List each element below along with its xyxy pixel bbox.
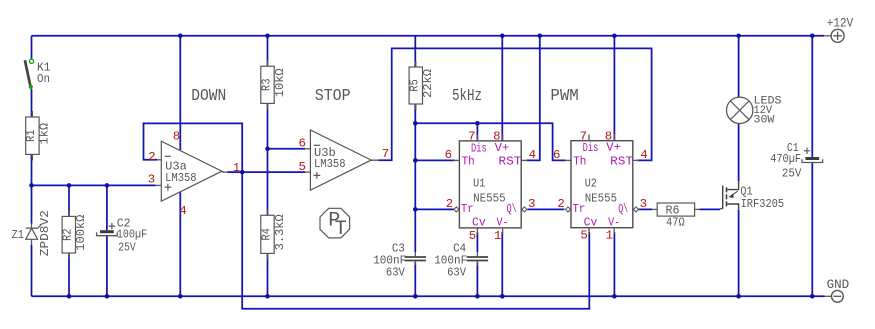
svg-text:Th: Th bbox=[573, 154, 586, 168]
node A wire (Z1/R2/C2/op-amp +) bbox=[32, 184, 156, 186]
svg-text:U1: U1 bbox=[473, 177, 485, 191]
svg-text:U2: U2 bbox=[585, 176, 597, 190]
svg-text:3: 3 bbox=[148, 173, 155, 187]
svg-text:PWM: PWM bbox=[550, 87, 578, 105]
wire U3a pin8 to +12V rail bbox=[179, 36, 181, 150]
svg-text:ZPD8V2: ZPD8V2 bbox=[38, 210, 52, 256]
svg-text:1kΩ: 1kΩ bbox=[38, 122, 52, 144]
svg-text:8: 8 bbox=[605, 130, 612, 144]
svg-text:470µF: 470µF bbox=[770, 152, 801, 166]
resistor R6 47ohm bbox=[652, 208, 657, 210]
wire U1 Cv to C4 bbox=[476, 232, 478, 252]
wire +12V top rail bbox=[32, 35, 825, 37]
capacitor C3 100nF bbox=[414, 252, 416, 256]
wire R6 to Q1 gate bbox=[700, 208, 721, 210]
svg-text:Tr: Tr bbox=[573, 202, 586, 216]
U3b minus input mark bbox=[314, 144, 320, 146]
svg-text:3: 3 bbox=[528, 197, 535, 211]
supply +12V bbox=[824, 35, 831, 37]
op-amp U3a triangle bbox=[161, 141, 222, 201]
wire C3 bottom bbox=[414, 262, 416, 296]
junction rail/lamp bbox=[736, 34, 741, 39]
svg-text:5: 5 bbox=[299, 160, 306, 174]
junction rail/U2 V+ bbox=[612, 34, 617, 39]
svg-text:5kHz: 5kHz bbox=[452, 87, 482, 105]
svg-text:R4: R4 bbox=[259, 228, 273, 241]
U3b plus input mark bbox=[314, 172, 321, 179]
timer U1 NE555 bbox=[476, 135, 478, 141]
U3b pin5 stub bbox=[305, 171, 310, 173]
svg-text:LM358: LM358 bbox=[165, 171, 197, 185]
junction gnd/C4 bbox=[475, 294, 480, 299]
transistor Q1 IRF3205 bbox=[720, 185, 723, 208]
wire R1 to node A bbox=[31, 154, 33, 185]
ground GND bbox=[825, 295, 832, 297]
wire U3a out to U3b pin5 bbox=[227, 171, 305, 173]
wire rail to lamp bbox=[738, 36, 740, 97]
lamp LEDS bbox=[727, 97, 753, 123]
junction gnd/U1 V- bbox=[500, 294, 505, 299]
capacitor C1 electrolytic bbox=[805, 157, 819, 160]
logo PT octagon bbox=[320, 208, 350, 238]
wire R5 top to rail bbox=[414, 36, 416, 67]
junction gnd/C3 bbox=[413, 294, 418, 299]
U3a plus input mark bbox=[165, 184, 172, 191]
svg-text:R3: R3 bbox=[259, 79, 273, 92]
svg-text:3.3kΩ: 3.3kΩ bbox=[273, 214, 287, 251]
svg-text:25V: 25V bbox=[782, 166, 802, 180]
svg-text:63V: 63V bbox=[447, 266, 466, 280]
svg-text:NE555: NE555 bbox=[473, 192, 506, 206]
wire U1 Dis drop bbox=[476, 123, 478, 141]
U3a pin2 stub bbox=[157, 159, 161, 161]
wire osc node to U1 Th bbox=[415, 159, 455, 161]
wire R4 bottom to rail bbox=[267, 253, 269, 296]
junction gnd/R4 bbox=[265, 294, 270, 299]
wire U2 V+ to rail bbox=[613, 36, 615, 141]
wire lamp to Q1 drain bbox=[738, 123, 740, 181]
wire U1 Q to U2 Tr bbox=[528, 208, 565, 210]
svg-text:RST: RST bbox=[499, 154, 522, 168]
svg-text:7: 7 bbox=[580, 130, 587, 144]
svg-text:1: 1 bbox=[606, 229, 613, 243]
polarity + C2 bbox=[109, 223, 115, 229]
svg-text:7: 7 bbox=[468, 130, 475, 144]
svg-text:3: 3 bbox=[640, 197, 647, 211]
svg-text:6: 6 bbox=[299, 137, 306, 151]
wire node A to Z1 bbox=[31, 185, 33, 223]
svg-text:R5: R5 bbox=[408, 79, 422, 92]
svg-text:30W: 30W bbox=[754, 115, 775, 127]
wire U1 V- to rail bbox=[501, 232, 503, 296]
svg-text:V-: V- bbox=[497, 216, 509, 230]
wire U1 V+ to rail bbox=[501, 36, 503, 141]
junction rail/C1 bbox=[810, 34, 815, 39]
resistor R5 22k bbox=[415, 61, 417, 67]
junction node A/Z1 bbox=[29, 183, 34, 188]
U3b pin6 stub bbox=[305, 148, 310, 150]
U3a output stub bbox=[222, 171, 228, 173]
junction R3-R4/U3b pin6 bbox=[265, 147, 270, 152]
wire rail to C1 bbox=[811, 36, 813, 157]
svg-text:4: 4 bbox=[529, 148, 536, 162]
wire osc node to U1 Dis bbox=[415, 122, 477, 124]
svg-text:4: 4 bbox=[179, 204, 186, 218]
U3a minus input mark bbox=[165, 155, 171, 157]
resistor R1 1k bbox=[31, 111, 33, 117]
wire C2 top bbox=[106, 185, 108, 230]
wire R2 top bbox=[68, 185, 70, 216]
capacitor C4 100nF bbox=[476, 252, 478, 256]
wire U2 Q to R6 bbox=[639, 208, 652, 210]
junction rail/U1 RST bbox=[538, 34, 543, 39]
svg-text:+12V: +12V bbox=[827, 16, 854, 31]
junction gnd/R2 bbox=[67, 294, 72, 299]
junction U3a output bbox=[240, 170, 245, 175]
svg-text:On: On bbox=[37, 72, 50, 86]
junction node A/C2 bbox=[105, 183, 110, 188]
junction osc/Tr line bbox=[413, 207, 418, 212]
svg-text:NE555: NE555 bbox=[585, 191, 618, 205]
junction gnd/C2 bbox=[105, 294, 110, 299]
svg-text:4: 4 bbox=[640, 148, 647, 162]
timer U2 NE555 bbox=[588, 135, 590, 141]
wire U3a pin4 to ground rail bbox=[179, 192, 181, 296]
svg-text:LM358: LM358 bbox=[314, 157, 346, 171]
switch K1 bbox=[29, 59, 33, 63]
wire R3 bottom to R4 top bbox=[267, 103, 269, 215]
op-amp U3b triangle bbox=[310, 130, 371, 190]
svg-text:Th: Th bbox=[462, 154, 475, 168]
svg-text:Q\: Q\ bbox=[507, 202, 517, 216]
wire U1 RST to rail bbox=[526, 36, 540, 161]
svg-text:25V: 25V bbox=[118, 240, 136, 254]
svg-text:63V: 63V bbox=[386, 266, 405, 280]
svg-text:IRF3205: IRF3205 bbox=[741, 197, 785, 211]
junction Dis line/U1 pin7 bbox=[475, 121, 480, 126]
svg-text:100kΩ: 100kΩ bbox=[74, 214, 88, 251]
svg-text:Tr: Tr bbox=[461, 202, 474, 216]
junction gnd/U2 V- bbox=[612, 294, 617, 299]
svg-text:7: 7 bbox=[382, 147, 389, 161]
resistor R3 10k bbox=[267, 60, 269, 66]
svg-text:6: 6 bbox=[553, 148, 560, 162]
svg-text:R2: R2 bbox=[61, 228, 75, 241]
wire Dis node to U2 Th bbox=[477, 123, 566, 160]
zener Z1 bbox=[31, 224, 33, 228]
svg-text:Q\: Q\ bbox=[618, 202, 628, 216]
svg-text:R1: R1 bbox=[24, 129, 38, 142]
wire Z1 to bottom rail bbox=[31, 245, 33, 296]
wire osc node to U1 Tr bbox=[415, 208, 454, 210]
svg-text:2: 2 bbox=[557, 197, 564, 211]
svg-text:Z1: Z1 bbox=[12, 228, 24, 242]
wire R3/R4 node to U3b pin6 bbox=[268, 148, 306, 150]
wire C4 bottom bbox=[476, 262, 478, 296]
svg-text:5: 5 bbox=[469, 229, 476, 243]
junction osc/Dis line bbox=[413, 121, 418, 126]
svg-text:1: 1 bbox=[233, 161, 240, 175]
svg-text:GND: GND bbox=[827, 277, 850, 292]
junction gnd/U3a pin4 bbox=[178, 294, 183, 299]
svg-text:DOWN: DOWN bbox=[191, 87, 226, 105]
junction rail/U1 V+ bbox=[500, 34, 505, 39]
wire R5 bottom to C3 bbox=[414, 104, 416, 252]
svg-text:V-: V- bbox=[608, 215, 620, 229]
svg-text:STOP: STOP bbox=[315, 87, 351, 105]
polarity + C1 bbox=[804, 148, 810, 154]
wire U3a out to U2 Cv (control voltage) bbox=[242, 172, 589, 309]
svg-text:22kΩ: 22kΩ bbox=[421, 69, 435, 98]
svg-text:5: 5 bbox=[580, 229, 587, 243]
wire GND bottom rail bbox=[32, 295, 825, 297]
svg-text:47Ω: 47Ω bbox=[666, 216, 685, 230]
svg-text:Cv: Cv bbox=[584, 215, 598, 229]
resistor R2 100k bbox=[68, 210, 70, 216]
junction gnd/Q1 source bbox=[736, 294, 741, 299]
wire U2 V- to rail bbox=[613, 232, 615, 296]
svg-text:T: T bbox=[335, 218, 347, 241]
wire switch to R1 bbox=[31, 89, 33, 117]
junction osc/Th line bbox=[413, 158, 418, 163]
wire R2 bottom bbox=[68, 253, 70, 296]
svg-text:RST: RST bbox=[610, 154, 633, 168]
svg-text:6: 6 bbox=[445, 148, 452, 162]
wire C1 to rail bbox=[811, 162, 813, 296]
svg-text:2: 2 bbox=[148, 150, 155, 164]
capacitor C2 electrolytic bbox=[100, 230, 114, 233]
svg-text:Cv: Cv bbox=[472, 216, 486, 230]
svg-text:2: 2 bbox=[446, 197, 453, 211]
svg-text:8: 8 bbox=[173, 130, 180, 144]
wire U3b out to U2 RST bbox=[379, 48, 652, 160]
wire C2 bottom bbox=[106, 236, 108, 296]
junction gnd/C1 bbox=[810, 294, 815, 299]
wire left drop to switch bbox=[31, 36, 33, 59]
junction rail/U3a pin8 bbox=[178, 34, 183, 39]
junction rail/R3 bbox=[265, 34, 270, 39]
junction node A/R2 bbox=[67, 183, 72, 188]
wire U3a feedback loop pin2-out bbox=[144, 123, 243, 172]
svg-text:1: 1 bbox=[494, 229, 501, 243]
resistor R4 3.3k bbox=[267, 209, 269, 215]
svg-text:10kΩ: 10kΩ bbox=[273, 68, 287, 97]
U3a pin3 stub bbox=[156, 184, 162, 186]
U3b output stub bbox=[371, 159, 379, 161]
wire Q1 source to rail bbox=[738, 210, 740, 296]
svg-text:8: 8 bbox=[493, 130, 500, 144]
wire R3 top to rail bbox=[267, 36, 269, 66]
